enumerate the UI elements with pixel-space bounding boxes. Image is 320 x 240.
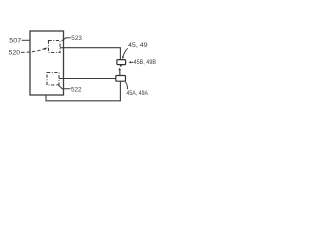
svg-text:523: 523 xyxy=(71,35,82,42)
dashed module 522 xyxy=(47,73,59,86)
dashed module 523 xyxy=(49,41,61,53)
wire from module 523 to connector 45B xyxy=(60,48,120,60)
leader 520 dashed arrow xyxy=(21,49,44,53)
svg-text:45B, 49B: 45B, 49B xyxy=(134,59,156,66)
leader 523 xyxy=(62,38,71,41)
leader 507 xyxy=(22,39,30,41)
connector 45A 49A xyxy=(116,76,126,82)
leader 45B 49B arrow xyxy=(130,61,133,63)
wire from module 522 to connector 45A xyxy=(59,78,116,80)
leader 522 xyxy=(57,84,70,88)
svg-text:507: 507 xyxy=(9,37,21,44)
signal arrow down xyxy=(120,64,123,67)
svg-text:522: 522 xyxy=(71,86,82,93)
signal arrow up xyxy=(118,68,121,76)
svg-text:45A, 49A: 45A, 49A xyxy=(127,90,149,97)
svg-text:45, 49: 45, 49 xyxy=(128,42,148,49)
svg-text:520: 520 xyxy=(9,50,21,57)
leader 45A 49A xyxy=(125,82,127,90)
connector 45B 49B xyxy=(117,60,126,65)
leader 45 49 arrow xyxy=(123,48,128,57)
controller box 507 xyxy=(30,31,64,95)
wire bottom from box 507 to connector 45A xyxy=(46,81,120,101)
